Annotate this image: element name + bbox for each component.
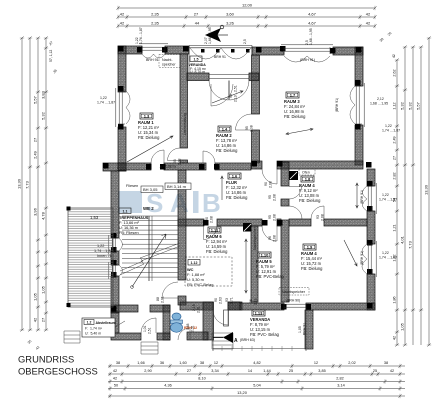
svg-text:54: 54 bbox=[393, 198, 397, 202]
stairs stringer bbox=[148, 216, 150, 281]
svg-text:FB: Dielung: FB: Dielung bbox=[284, 114, 306, 119]
svg-text:Abstellraum: Abstellraum bbox=[96, 321, 116, 325]
window raum1 top bbox=[139, 44, 168, 53]
window left lower 2 bbox=[109, 262, 118, 279]
svg-text:2,08: 2,08 bbox=[178, 158, 182, 165]
wall h 1.8-1.9 b bbox=[324, 219, 367, 226]
pier p14 bbox=[103, 163, 109, 169]
door label wc width bbox=[192, 304, 201, 313]
steps bottom middle bbox=[212, 333, 233, 349]
svg-text:1,22: 1,22 bbox=[97, 244, 104, 248]
pier p30 bbox=[277, 161, 283, 167]
svg-text:Innen 76: Innen 76 bbox=[97, 254, 112, 258]
svg-text:1.1: 1.1 bbox=[123, 209, 128, 213]
wall treppenhaus right a bbox=[178, 170, 186, 280]
pier p21 bbox=[367, 240, 373, 246]
door label raum5 door bbox=[268, 235, 277, 242]
dimension chain left row4 bbox=[44, 36, 48, 331]
door label 1.8-1.9 door bbox=[316, 214, 325, 221]
wall right-lower c bbox=[367, 274, 375, 310]
wall raum3 bottom a bbox=[252, 161, 263, 169]
svg-text:1.10: 1.10 bbox=[261, 253, 270, 258]
svg-text:4,36: 4,36 bbox=[164, 384, 171, 388]
pier p34 bbox=[277, 220, 283, 226]
svg-text:2,63: 2,63 bbox=[219, 297, 223, 304]
pier p19 bbox=[367, 181, 373, 187]
svg-text:38: 38 bbox=[200, 361, 204, 365]
svg-text:88: 88 bbox=[156, 297, 160, 301]
pier p32 bbox=[203, 220, 209, 226]
svg-text:95: 95 bbox=[245, 126, 249, 130]
veranda 1.5 posts bbox=[201, 49, 205, 53]
pier p13 bbox=[355, 124, 361, 130]
svg-text:FB: PVC-Belag: FB: PVC-Belag bbox=[187, 282, 213, 287]
svg-text:42: 42 bbox=[120, 11, 125, 16]
dimension chain right row2 bbox=[403, 45, 407, 346]
svg-text:1,66: 1,66 bbox=[137, 361, 144, 365]
pier p26 bbox=[160, 164, 166, 170]
svg-text:1,74 …1,87: 1,74 …1,87 bbox=[382, 129, 400, 133]
svg-text:FB: PVC-Belag: FB: PVC-Belag bbox=[256, 274, 284, 279]
door arc left lower win2 bbox=[119, 265, 123, 276]
dimension chain left row3 bbox=[36, 36, 40, 331]
svg-text:5,57: 5,57 bbox=[33, 95, 38, 104]
door arc door flur-mid bbox=[289, 187, 302, 200]
wall partition r2-r3 b bbox=[252, 130, 260, 163]
svg-text:2,62: 2,62 bbox=[393, 69, 397, 76]
svg-text:1,86: 1,86 bbox=[393, 296, 397, 303]
svg-text:90: 90 bbox=[205, 217, 209, 221]
svg-text:2,08: 2,08 bbox=[210, 216, 214, 223]
svg-text:2,08: 2,08 bbox=[250, 125, 254, 132]
svg-text:FB: Dielung: FB: Dielung bbox=[216, 148, 238, 153]
svg-text:2,35: 2,35 bbox=[151, 11, 160, 16]
wall bottom ext b bbox=[157, 333, 170, 340]
svg-text:1,05: 1,05 bbox=[298, 326, 302, 333]
svg-text:BRH 91: BRH 91 bbox=[146, 58, 159, 62]
svg-text:1,05: 1,05 bbox=[41, 285, 46, 294]
svg-text:42: 42 bbox=[393, 336, 397, 340]
svg-text:4,82: 4,82 bbox=[253, 361, 260, 365]
svg-text:BRH 91: BRH 91 bbox=[303, 323, 307, 335]
svg-text:12: 12 bbox=[214, 361, 218, 365]
wall left-lower c bbox=[111, 276, 119, 313]
svg-text:Nachtspeicher: Nachtspeicher bbox=[253, 226, 257, 250]
wc toilet bbox=[171, 320, 183, 324]
svg-text:3,14: 3,14 bbox=[337, 384, 344, 388]
svg-text:2,01: 2,01 bbox=[161, 296, 165, 303]
dimension chain left row1 bbox=[20, 36, 24, 331]
rotated dim above raum3 window bbox=[305, 28, 313, 45]
door arc door bottom ext bbox=[141, 318, 156, 333]
svg-text:FB: Dielung: FB: Dielung bbox=[206, 249, 228, 254]
wall top-right b bbox=[333, 47, 363, 55]
room label 1.1 TREPPENHAUS bbox=[119, 208, 149, 235]
wall bottom-right b bbox=[306, 303, 375, 310]
pier p12 bbox=[355, 80, 361, 86]
svg-text:1.7: 1.7 bbox=[290, 93, 296, 98]
door arc door 1.8-1.9 bbox=[311, 206, 324, 219]
direction arrow raum2 bbox=[212, 91, 243, 103]
window dim right 1 bbox=[379, 193, 397, 202]
svg-text:3,60: 3,60 bbox=[226, 11, 235, 16]
svg-text:1.13: 1.13 bbox=[255, 311, 264, 316]
svg-text:(BRH 90): (BRH 90) bbox=[286, 299, 300, 303]
svg-text:57, 1,12: 57, 1,12 bbox=[49, 50, 53, 62]
svg-text:13,30: 13,30 bbox=[17, 178, 22, 189]
watermark AIB bbox=[118, 188, 221, 218]
svg-text:F: 1,74 m²: F: 1,74 m² bbox=[85, 327, 103, 331]
terrace corner marks bbox=[67, 207, 71, 211]
pier p24 bbox=[111, 306, 117, 312]
svg-text:1,22: 1,22 bbox=[382, 193, 389, 197]
svg-text:13,20: 13,20 bbox=[237, 390, 248, 395]
wall block bottom a bbox=[180, 302, 213, 310]
wall flur right b bbox=[281, 199, 289, 206]
wall flur right c bbox=[281, 220, 289, 302]
wc sink bbox=[172, 313, 181, 320]
label BH 3,05 m bbox=[141, 186, 163, 193]
svg-text:93: 93 bbox=[225, 298, 229, 302]
terrace deck bbox=[68, 208, 113, 307]
svg-text:B: B bbox=[202, 188, 221, 218]
svg-text:5,04: 5,04 bbox=[253, 384, 260, 388]
wall raum3 right a bbox=[355, 47, 363, 86]
dimension chain right row5 bbox=[427, 36, 431, 346]
door arc door raum6 top bbox=[204, 226, 218, 240]
svg-text:Nachtspeicher: Nachtspeicher bbox=[282, 290, 306, 294]
svg-text:50: 50 bbox=[114, 384, 118, 388]
window left lower 1 bbox=[109, 235, 118, 254]
svg-text:3,26: 3,26 bbox=[226, 20, 235, 25]
svg-text:4,78: 4,78 bbox=[41, 211, 46, 220]
door arc raum3 right win bbox=[350, 86, 355, 124]
pier p23 bbox=[366, 162, 372, 168]
dimension chain right row1 bbox=[395, 58, 399, 346]
svg-text:27: 27 bbox=[33, 137, 38, 142]
window right 2 bbox=[367, 241, 376, 277]
north arrow bbox=[205, 28, 221, 42]
svg-text:27: 27 bbox=[393, 156, 397, 160]
svg-text:1,74…1,87: 1,74…1,87 bbox=[139, 27, 143, 44]
direction arrow raum1 bbox=[127, 136, 173, 162]
door label block exit bbox=[214, 297, 223, 304]
svg-text:(BRH 91): (BRH 91) bbox=[300, 58, 315, 62]
svg-text:A: A bbox=[234, 338, 238, 344]
door arc r1-r2 bbox=[168, 148, 181, 161]
door arc door flur-raum3 bbox=[262, 169, 277, 184]
pier p9 bbox=[356, 47, 362, 53]
svg-text:3,34: 3,34 bbox=[211, 369, 218, 373]
right rotated small dims top bbox=[379, 31, 396, 58]
veranda 1.5 outline bbox=[189, 46, 252, 74]
direction arrow flur bbox=[221, 176, 224, 200]
dimension chain top row3 bbox=[116, 24, 376, 28]
svg-text:1.5: 1.5 bbox=[194, 57, 199, 61]
dimension chain bottom row5 bbox=[108, 394, 405, 398]
svg-text:FB: Dielung: FB: Dielung bbox=[301, 266, 323, 271]
svg-text:2,13: 2,13 bbox=[254, 298, 258, 305]
pier p22 bbox=[367, 269, 373, 275]
pier p28 bbox=[214, 164, 220, 170]
pier p7 bbox=[280, 46, 286, 52]
pier p4 bbox=[183, 46, 189, 52]
nachtspeicher dashed box top bbox=[159, 55, 180, 68]
room label 1.10 RAUM 5 bbox=[256, 252, 284, 279]
svg-text:1,05: 1,05 bbox=[33, 292, 38, 301]
svg-text:1,74…1,87: 1,74…1,87 bbox=[94, 249, 113, 253]
door arc right win1 bbox=[363, 186, 368, 211]
veranda door label bbox=[229, 85, 238, 102]
svg-text:BH 3,14 m: BH 3,14 m bbox=[167, 184, 187, 189]
wall partition r2-r3 a bbox=[252, 55, 260, 114]
wall entry top bbox=[228, 302, 240, 310]
svg-text:96: 96 bbox=[249, 299, 253, 303]
svg-text:FB: Fliesen: FB: Fliesen bbox=[119, 230, 139, 235]
pier p6 bbox=[256, 47, 262, 53]
window raum1 left bbox=[116, 88, 125, 127]
window raum3 top bbox=[281, 45, 333, 54]
svg-text:2,71: 2,71 bbox=[230, 297, 234, 304]
svg-text:7,73: 7,73 bbox=[408, 240, 413, 249]
svg-text:5,32: 5,32 bbox=[408, 101, 413, 110]
dimension chain bottom row4 bbox=[108, 386, 405, 390]
svg-text:WE 2: WE 2 bbox=[143, 206, 154, 211]
wall left-lower b bbox=[111, 251, 119, 265]
door arc door treppenhaus bbox=[162, 282, 178, 298]
pier p2 bbox=[137, 47, 143, 53]
svg-text:42: 42 bbox=[33, 317, 38, 322]
pier p18 bbox=[111, 272, 117, 278]
svg-text:42: 42 bbox=[113, 369, 117, 373]
svg-text:1,21: 1,21 bbox=[393, 224, 397, 231]
svg-text:0,88: 0,88 bbox=[186, 323, 190, 330]
room label 1.12 WC (dashed block) bbox=[185, 257, 232, 287]
veranda 1.13 bottom edge bbox=[213, 310, 306, 351]
wall veranda left bit bbox=[187, 332, 208, 340]
svg-text:4,67: 4,67 bbox=[308, 11, 317, 16]
svg-text:2,49: 2,49 bbox=[393, 136, 397, 143]
steps bottom-left of terrace bbox=[64, 331, 80, 343]
svg-text:2,08: 2,08 bbox=[273, 214, 277, 221]
svg-text:1,22: 1,22 bbox=[100, 96, 107, 100]
svg-text:1.12: 1.12 bbox=[191, 261, 198, 265]
room label 1.4 RAUM 2 bbox=[216, 126, 238, 153]
door arc door flur-low bbox=[289, 206, 302, 219]
chimney raum6 bbox=[243, 223, 252, 232]
door label entry door bbox=[225, 297, 234, 304]
door arc door flur-raum2 bbox=[203, 151, 215, 163]
wall mid-h a bbox=[118, 163, 151, 170]
title GRUNDRISS OBERGESCHOSS bbox=[18, 354, 98, 377]
svg-text:FB: Dielung: FB: Dielung bbox=[226, 195, 248, 200]
svg-text:95: 95 bbox=[268, 195, 272, 199]
pier p11 bbox=[118, 124, 124, 130]
wall block top a bbox=[178, 219, 204, 226]
wall raum3 bottom b bbox=[277, 161, 363, 169]
svg-text:FB: Dielung: FB: Dielung bbox=[299, 198, 321, 203]
door arc door raum2 veranda bbox=[211, 84, 233, 106]
svg-text:14: 14 bbox=[248, 369, 252, 373]
stairs treppenhaus bbox=[122, 216, 178, 277]
svg-text:2,02: 2,02 bbox=[348, 361, 355, 365]
svg-text:44: 44 bbox=[195, 20, 200, 25]
rotated door dim bottom-left bbox=[143, 325, 152, 334]
pier p31 bbox=[367, 303, 373, 309]
stairs cut line bbox=[120, 243, 180, 275]
svg-text:93: 93 bbox=[316, 215, 320, 219]
svg-text:42: 42 bbox=[390, 369, 394, 373]
window bottom-right bbox=[284, 303, 306, 310]
wall raum3 right b bbox=[355, 125, 363, 165]
pier p36 bbox=[306, 304, 312, 310]
svg-text:(BRH 91): (BRH 91) bbox=[360, 251, 364, 265]
rotated dim right of veranda bbox=[249, 298, 258, 305]
room label 1.3 RAUM 1 bbox=[138, 113, 160, 140]
dimension chain left row2 bbox=[28, 36, 32, 331]
svg-text:4,01: 4,01 bbox=[400, 235, 405, 244]
svg-text:5,32: 5,32 bbox=[400, 101, 405, 110]
room label 1.7 RAUM 3 bbox=[284, 92, 306, 119]
svg-text:90: 90 bbox=[214, 298, 218, 302]
door arc door raum5 top bbox=[262, 226, 277, 241]
window raum3 right bbox=[355, 83, 364, 127]
svg-text:BRH 91: BRH 91 bbox=[214, 55, 226, 59]
wall flur right a bbox=[281, 162, 289, 186]
svg-text:4,67: 4,67 bbox=[308, 20, 317, 25]
svg-text:96: 96 bbox=[268, 236, 272, 240]
top rotated window dims bbox=[135, 27, 247, 44]
svg-text:2,12: 2,12 bbox=[377, 97, 384, 101]
dimension chain top row1 bbox=[116, 6, 376, 10]
svg-text:3,85: 3,85 bbox=[318, 369, 325, 373]
svg-text:(BRH 63): (BRH 63) bbox=[240, 338, 255, 342]
wall right-lower b bbox=[367, 211, 375, 244]
direction arrow raum3 bbox=[286, 128, 313, 135]
svg-text:1,60: 1,60 bbox=[179, 361, 186, 365]
label Nachtspeicher top bbox=[146, 58, 176, 67]
svg-text:1.3: 1.3 bbox=[144, 114, 150, 119]
wall left-upper a bbox=[118, 46, 126, 92]
direction arrow raum 1.8 bbox=[356, 183, 359, 208]
svg-text:1,12: 1,12 bbox=[393, 102, 397, 109]
svg-text:25: 25 bbox=[289, 369, 293, 373]
svg-text:2,01: 2,01 bbox=[191, 325, 195, 332]
svg-text:27: 27 bbox=[194, 11, 199, 16]
room label 1.13 VERANDA bbox=[250, 310, 280, 337]
svg-text:5,32: 5,32 bbox=[41, 111, 46, 120]
svg-text:38: 38 bbox=[116, 361, 120, 365]
wall mid-h b bbox=[164, 163, 206, 170]
pier p29 bbox=[252, 161, 258, 167]
wall block top b bbox=[217, 219, 262, 226]
svg-text:90: 90 bbox=[264, 182, 268, 186]
terrace label innen bbox=[94, 244, 113, 258]
door arc raum3 top win bbox=[284, 56, 330, 62]
svg-text:5,57: 5,57 bbox=[416, 101, 421, 110]
dimension chain right row4 bbox=[419, 45, 423, 345]
pier p25 bbox=[146, 164, 152, 170]
pier p27 bbox=[199, 164, 205, 170]
svg-text:Ofen: Ofen bbox=[302, 171, 310, 175]
svg-text:(BRH 91): (BRH 91) bbox=[360, 190, 364, 204]
svg-text:1,53: 1,53 bbox=[90, 215, 99, 220]
svg-text:1.9: 1.9 bbox=[307, 245, 313, 250]
svg-text:12: 12 bbox=[314, 361, 318, 365]
wall bottom ext a bbox=[111, 333, 141, 340]
room label 1.8 RAUM 4 bbox=[299, 176, 321, 203]
door label raum6 door bbox=[205, 216, 214, 223]
wall partition r1-r2 b bbox=[180, 160, 188, 163]
svg-text:1,05: 1,05 bbox=[400, 322, 405, 331]
svg-text:Leerverrohrung: Leerverrohrung bbox=[183, 113, 187, 135]
veranda door threshold bbox=[209, 74, 249, 81]
veranda tick marks bbox=[222, 346, 292, 351]
svg-text:95: 95 bbox=[268, 215, 272, 219]
room label 1.6 FLUR bbox=[226, 173, 248, 200]
wall veranda stub left bbox=[187, 73, 209, 81]
door label flur-raum3 bbox=[264, 181, 273, 188]
svg-text:2,31: 2,31 bbox=[197, 306, 201, 313]
label BH 3,14 m bbox=[165, 183, 191, 190]
svg-text:3,83: 3,83 bbox=[41, 90, 46, 99]
wall left step bbox=[103, 163, 126, 171]
wall top-left b bbox=[165, 46, 189, 54]
svg-text:1,22: 1,22 bbox=[385, 124, 392, 128]
svg-text:36: 36 bbox=[160, 361, 164, 365]
svg-text:2,35: 2,35 bbox=[151, 20, 160, 25]
pier p3 bbox=[162, 47, 168, 53]
dimension chain right row3 bbox=[411, 45, 415, 345]
svg-text:42: 42 bbox=[120, 20, 125, 25]
svg-text:1.8: 1.8 bbox=[305, 177, 311, 182]
dimension chain bottom row2 bbox=[108, 372, 405, 376]
window dim left upper bbox=[97, 96, 115, 105]
room label 1.9 RAUM 4 bbox=[301, 244, 323, 271]
wall veranda right bbox=[305, 310, 313, 349]
wall block top c bbox=[277, 219, 281, 226]
svg-text:1,66…1,95: 1,66…1,95 bbox=[208, 27, 212, 44]
direction arrow raum6 bbox=[245, 239, 248, 293]
svg-text:38: 38 bbox=[384, 361, 388, 365]
section marker A bottom bbox=[223, 332, 233, 343]
svg-text:42: 42 bbox=[366, 11, 371, 16]
pier p33 bbox=[262, 220, 268, 226]
label Ofen bbox=[299, 169, 315, 175]
door arc door wc bbox=[178, 328, 190, 340]
entry door leaf bbox=[224, 310, 229, 326]
wall treppenhaus right b bbox=[178, 296, 186, 305]
veranda double door bbox=[209, 81, 249, 101]
svg-text:FB: Dielung: FB: Dielung bbox=[138, 135, 160, 140]
svg-text:1,68 …1,95: 1,68 …1,95 bbox=[370, 102, 388, 106]
door arc raum1 left win bbox=[126, 91, 130, 124]
wall top-right a bbox=[252, 47, 284, 55]
svg-text:2,90: 2,90 bbox=[144, 369, 151, 373]
door arc right win2 bbox=[362, 244, 367, 274]
svg-text:12,00: 12,00 bbox=[242, 2, 253, 7]
door arc raum1 top win bbox=[142, 54, 165, 58]
svg-text:95: 95 bbox=[173, 159, 177, 163]
window right 1 bbox=[367, 183, 376, 214]
svg-text:OBERGESCHOSS: OBERGESCHOSS bbox=[18, 366, 98, 377]
svg-text:42: 42 bbox=[392, 54, 396, 58]
wall partition r6-r5 bbox=[251, 226, 258, 302]
svg-text:2,82: 2,82 bbox=[336, 377, 343, 381]
dimension chain top row2 bbox=[116, 15, 376, 19]
svg-text:1,01: 1,01 bbox=[143, 325, 147, 332]
r2-r3 door label bbox=[245, 125, 254, 132]
